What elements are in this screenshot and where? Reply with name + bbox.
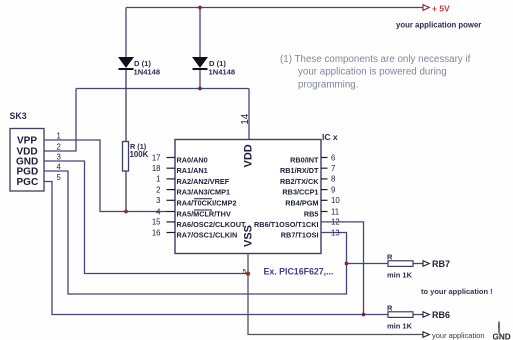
pin label GND [16, 157, 38, 168]
svg-text:your application is powered du: your application is powered during [298, 67, 447, 78]
svg-text:14: 14 [240, 113, 251, 125]
svg-text:SK3: SK3 [10, 111, 27, 121]
label min 1K (RB7) [387, 271, 413, 280]
svg-text:RA0/AN0: RA0/AN0 [177, 156, 208, 165]
svg-text:5: 5 [57, 173, 62, 182]
overline T0CKI [194, 198, 212, 200]
pin numbers left 17 18 1 2 3 4 15 16 [152, 153, 161, 237]
svg-text:RA6/OSC2/CLKOUT: RA6/OSC2/CLKOUT [177, 220, 246, 229]
label R (RB6) [387, 304, 393, 313]
svg-text:RA4/T0CKI/CMP2: RA4/T0CKI/CMP2 [177, 198, 237, 207]
resistor R min 1K (RB6) [388, 312, 413, 318]
wire resistor to MCLR node [125, 171, 127, 212]
wire diode D2 top drop [199, 8, 201, 58]
wire VDD left drop to SK3 pin2 [44, 89, 76, 152]
svg-text:R: R [387, 253, 393, 262]
junction top rail [198, 6, 202, 10]
svg-text:RB6: RB6 [432, 310, 450, 320]
svg-text:your application: your application [432, 331, 485, 340]
wire PGD pin4 to RB7 [44, 171, 347, 294]
overline MCLR [194, 209, 212, 211]
label IC x [322, 132, 338, 142]
label Ex. PIC16F627 [264, 266, 334, 276]
wire VDD right drop to IC pin14 [248, 89, 250, 140]
svg-text:4: 4 [57, 163, 62, 172]
svg-text:3: 3 [156, 196, 160, 205]
label to your application ! [421, 287, 493, 296]
label VDD rotated [243, 144, 255, 167]
IC U1 box [175, 140, 321, 254]
pin numbers right 6 7 8 9 10 11 12 13 [331, 153, 340, 237]
svg-text:2: 2 [57, 143, 61, 152]
junction MCLR [124, 210, 128, 214]
node RB6 arrow [423, 312, 429, 318]
wire GND pin3 to VSS [44, 161, 248, 274]
svg-text:min 1K: min 1K [387, 322, 413, 331]
note (1) text [280, 54, 471, 91]
svg-text:RB7: RB7 [432, 259, 450, 269]
svg-text:RA1/AN1: RA1/AN1 [177, 166, 208, 175]
label SK3 [10, 111, 27, 121]
label your application [432, 331, 485, 340]
svg-text:min 1K: min 1K [387, 271, 413, 280]
svg-text:16: 16 [152, 228, 161, 237]
label 1N4148 [134, 68, 161, 77]
svg-text:3: 3 [57, 153, 61, 162]
junction VSS GND [246, 272, 250, 276]
svg-text:8: 8 [331, 175, 335, 184]
svg-text:RA7/OSC1/CLKIN: RA7/OSC1/CLKIN [177, 231, 238, 240]
label R (RB7) [387, 253, 393, 262]
pin label PGD [17, 167, 39, 178]
pin number 14 [240, 113, 251, 125]
label 100K [130, 150, 149, 159]
diode D2 1N4148 [193, 58, 208, 71]
svg-text:5: 5 [243, 269, 247, 276]
svg-text:RB3/CCP1: RB3/CCP1 [282, 188, 318, 197]
svg-text:R: R [387, 304, 393, 313]
wire +5V rail [126, 7, 423, 9]
pin label VDD [17, 147, 38, 158]
wire RB6 pin12 drop [321, 222, 364, 315]
node RB7 arrow [423, 261, 429, 267]
svg-text:7: 7 [331, 164, 335, 173]
svg-text:programming.: programming. [298, 79, 358, 90]
label RB6 [432, 310, 450, 320]
ground symbol GND [493, 322, 511, 340]
pin number 3 [57, 153, 61, 162]
svg-text:PGD: PGD [17, 167, 39, 178]
svg-text:6: 6 [331, 153, 335, 162]
IC pin names right [254, 156, 319, 240]
svg-text:VDD: VDD [243, 144, 255, 167]
resistor R min 1K (RB7) [388, 261, 413, 267]
junction RB7 branch [345, 262, 349, 266]
svg-text:RB6/T1OSO/T1CKI: RB6/T1OSO/T1CKI [254, 220, 318, 229]
svg-text:9: 9 [331, 185, 335, 194]
pin label PGC [17, 177, 39, 188]
svg-text:RA5/MCLR/THV: RA5/MCLR/THV [177, 210, 231, 219]
svg-text:RB0/INT: RB0/INT [290, 156, 319, 165]
svg-text:4: 4 [156, 207, 161, 216]
junction RB6 branch [362, 313, 366, 317]
wire PGC pin5 to RB6 [44, 182, 388, 315]
wire RB6 resistor to arrow [413, 314, 423, 316]
junction VDD diode D2 [198, 87, 202, 91]
svg-text:VPP: VPP [17, 136, 37, 147]
svg-text:RA2/AN2/VREF: RA2/AN2/VREF [177, 177, 230, 186]
svg-text:100K: 100K [130, 150, 149, 159]
svg-text:IC x: IC x [322, 132, 338, 142]
svg-text:PGC: PGC [17, 177, 39, 188]
svg-text:1: 1 [57, 132, 61, 141]
label D (1) [134, 59, 151, 68]
svg-text:1: 1 [156, 175, 160, 184]
wire D1 cathode to resistor [125, 70, 127, 142]
svg-text:RA3/AN3/CMP1: RA3/AN3/CMP1 [177, 188, 231, 197]
label + 5V [432, 4, 450, 14]
diode D1 1N4148 [119, 58, 134, 71]
wire RB7 branch to resistor [347, 263, 389, 265]
svg-text:RB4/PGM: RB4/PGM [285, 198, 318, 207]
IC pin names left [177, 156, 246, 240]
svg-text:RB7/T1OSI: RB7/T1OSI [281, 231, 319, 240]
svg-text:RB5: RB5 [304, 210, 319, 219]
svg-text:17: 17 [152, 153, 161, 162]
svg-text:1N4148: 1N4148 [134, 68, 161, 77]
label D (1) second [209, 59, 226, 68]
wire VDD rail [76, 88, 249, 90]
wire VSS pin to GND bottom [248, 254, 423, 335]
svg-text:your application power: your application power [396, 21, 481, 30]
label 1N4148 second [209, 68, 236, 77]
svg-text:Ex. PIC16F627,...: Ex. PIC16F627,... [264, 266, 334, 276]
svg-text:2: 2 [156, 185, 160, 194]
node GND arrow [423, 332, 429, 338]
svg-text:GND: GND [493, 333, 511, 340]
wire diode D1 top drop [125, 8, 127, 58]
pin label VPP [17, 136, 37, 147]
pin number 4 [57, 163, 62, 172]
svg-text:VSS: VSS [243, 225, 255, 247]
svg-text:1N4148: 1N4148 [209, 68, 236, 77]
svg-text:11: 11 [331, 207, 339, 216]
pin stubs left [167, 158, 176, 233]
resistor R1 100K body [123, 142, 129, 172]
svg-text:10: 10 [331, 196, 340, 205]
pin number 2 [57, 143, 61, 152]
label RB7 [432, 259, 450, 269]
svg-text:RB1/RX/DT: RB1/RX/DT [280, 166, 319, 175]
wire D2 cathode to VDD rail [199, 70, 201, 89]
svg-text:13: 13 [331, 228, 340, 237]
wire RB7 resistor to arrow [413, 263, 423, 265]
svg-text:to your application !: to your application ! [421, 287, 493, 296]
label min 1K (RB6) [387, 322, 413, 331]
label VSS rotated [243, 225, 255, 247]
pin number 1 [57, 132, 61, 141]
pin stubs right [321, 158, 328, 212]
svg-text:+ 5V: + 5V [432, 4, 450, 14]
node +5V arrow [423, 5, 429, 11]
label R (1) [130, 142, 147, 151]
svg-text:15: 15 [152, 218, 161, 227]
svg-text:18: 18 [152, 164, 161, 173]
pin number 5 VSS [243, 269, 247, 276]
svg-text:RB2/TX/CK: RB2/TX/CK [280, 177, 319, 186]
label your application power [396, 21, 481, 30]
svg-text:(1) These components are only: (1) These components are only necessary … [280, 54, 471, 65]
wire VPP pin1 to MCLR [44, 140, 167, 212]
connector SK3 box [10, 129, 44, 192]
pin number 5 [57, 173, 62, 182]
